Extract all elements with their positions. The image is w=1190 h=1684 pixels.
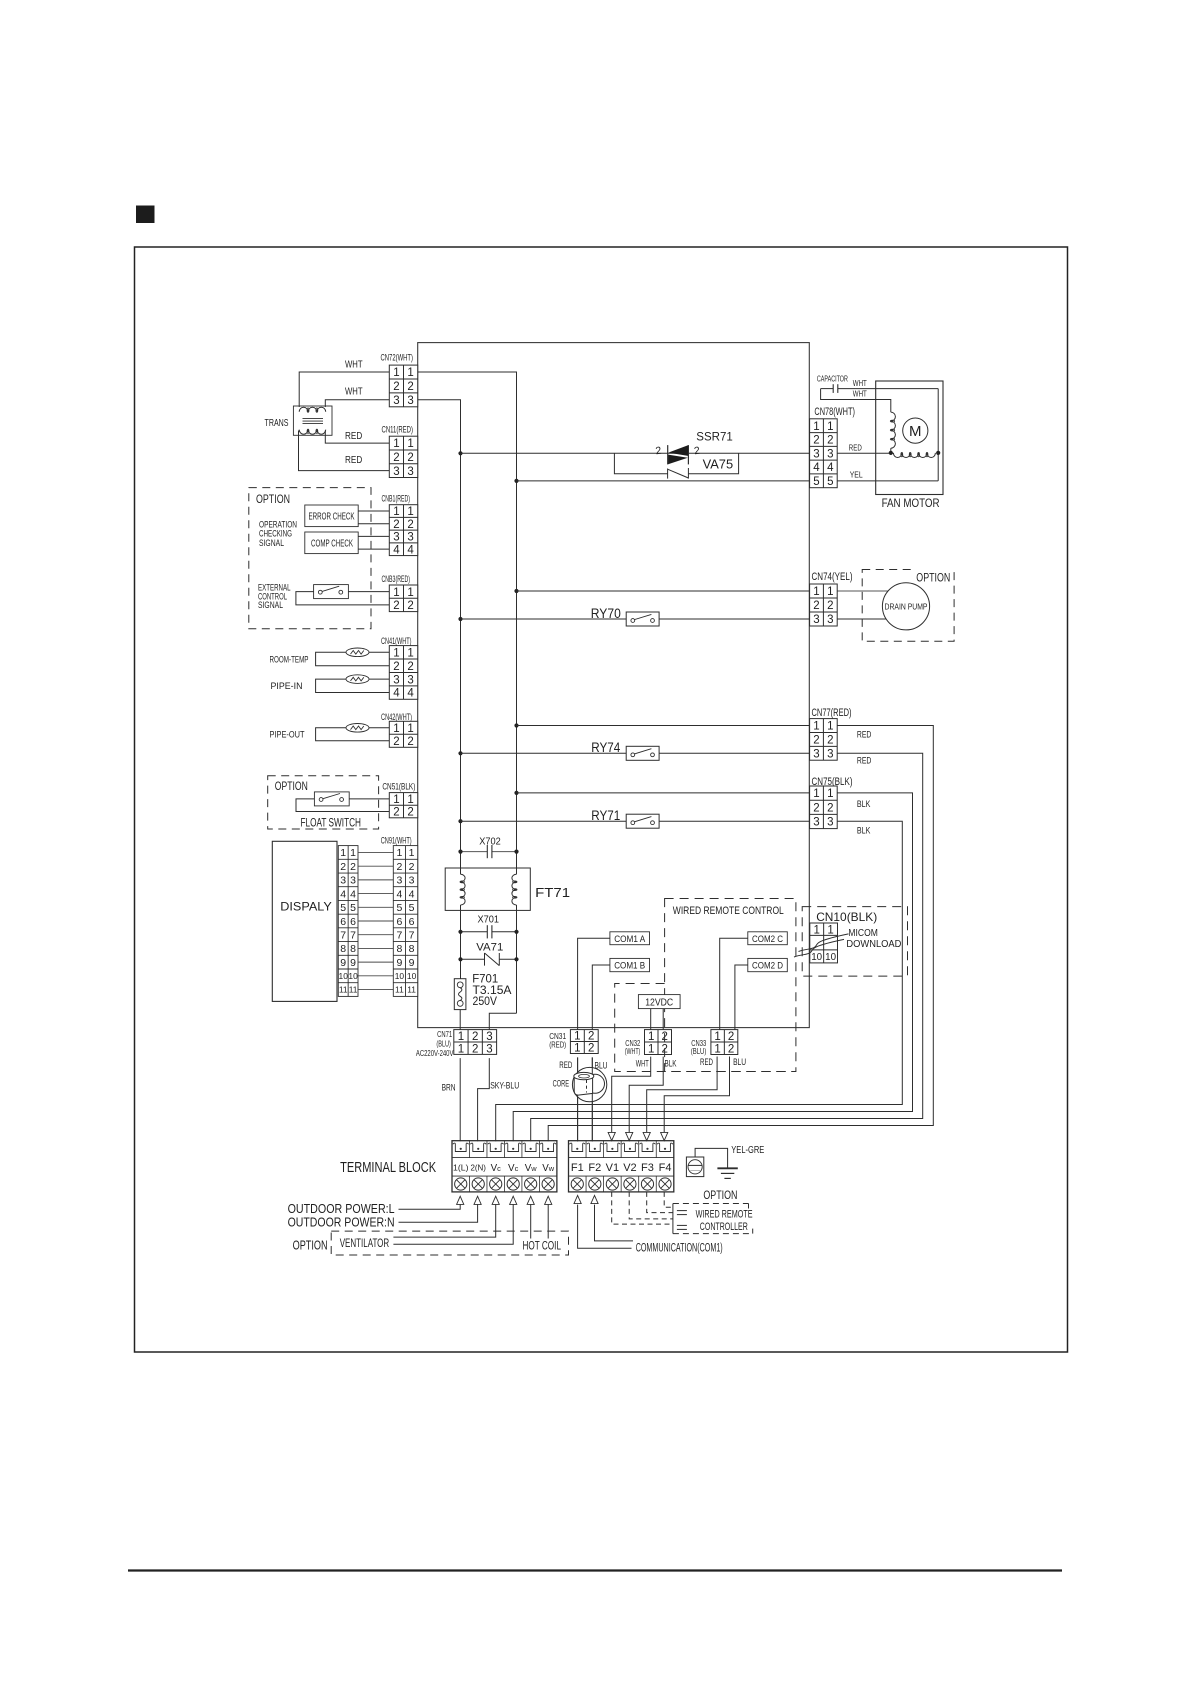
svg-text:3: 3 (813, 817, 819, 829)
svg-text:7: 7 (396, 929, 402, 941)
wire: vertical bus from CN72 pin3 (418, 400, 461, 874)
svg-text:3: 3 (827, 448, 833, 460)
wire: bus1 to RY70 to CN74 pin3 (461, 618, 627, 620)
svg-text:FT71: FT71 (535, 885, 570, 900)
varistor VA75 parallel branch (614, 453, 667, 473)
svg-text:6: 6 (340, 916, 346, 928)
dashed option box: drain pump (862, 570, 954, 642)
svg-text:CN72(WHT): CN72(WHT) (381, 353, 414, 363)
fan motor aux winding (horizontal) (893, 453, 935, 458)
switch: external control (314, 585, 349, 599)
label WIRED REMOTE CONTROL (668, 901, 792, 917)
svg-text:2: 2 (813, 735, 819, 747)
svg-text:4: 4 (393, 544, 400, 556)
svg-text:SIGNAL: SIGNAL (258, 600, 283, 611)
arrow under F2 (591, 1195, 598, 1203)
wire: CN32 pin2 to terminal V2 (629, 1057, 663, 1133)
svg-text:5: 5 (396, 902, 402, 914)
node X702 right (514, 850, 518, 854)
svg-text:VA75: VA75 (703, 457, 734, 472)
svg-text:1: 1 (574, 1043, 580, 1055)
earth ground symbol (717, 1167, 737, 1169)
arrow into F3 (643, 1132, 650, 1140)
svg-text:3: 3 (393, 466, 399, 478)
wire: bus2 to CN77 pin1 (517, 725, 810, 727)
svg-text:4: 4 (827, 462, 834, 474)
svg-text:1: 1 (393, 587, 399, 599)
wire: 12VDC to CN32 pin1 (650, 1009, 652, 1030)
svg-text:11: 11 (339, 985, 348, 995)
svg-text:3: 3 (407, 466, 413, 478)
svg-text:YEL: YEL (850, 469, 863, 479)
svg-text:1: 1 (407, 723, 413, 735)
svg-text:WHT: WHT (636, 1058, 649, 1068)
drain pump circle (882, 583, 929, 630)
svg-text:1: 1 (409, 847, 415, 859)
svg-text:2: 2 (827, 435, 833, 447)
svg-text:1: 1 (813, 788, 819, 800)
svg-text:11: 11 (395, 985, 404, 995)
svg-text:(BLU): (BLU) (436, 1039, 451, 1049)
relay RY74 (626, 746, 659, 760)
dashed option box: ventilator / hot coil (331, 1231, 568, 1255)
svg-text:1: 1 (714, 1043, 720, 1055)
lead: ventilator to Vc3 (393, 1205, 495, 1238)
svg-text:OPTION: OPTION (293, 1238, 328, 1252)
wire: CN75 pin3 to terminal Vc3 (496, 821, 903, 1141)
svg-text:2: 2 (407, 452, 413, 464)
wire: bus1 to RY74 to CN77 pin3 (461, 752, 627, 754)
svg-text:9: 9 (350, 957, 356, 969)
svg-text:F701: F701 (472, 973, 498, 985)
wire: bus2 to CN75 pin1 (517, 792, 810, 794)
node: bus1/RY74 junction (458, 751, 462, 755)
dashed box MICOM DOWNLOAD (802, 907, 907, 977)
svg-text:BRN: BRN (442, 1082, 456, 1093)
svg-text:2: 2 (393, 807, 399, 819)
wire+thermistor: ROOM-TEMP to CN41 pins 1,2 (316, 652, 390, 665)
svg-text:OPTION: OPTION (916, 570, 950, 584)
wire break squiggle through CN10 (799, 934, 849, 952)
svg-text:10: 10 (825, 952, 836, 963)
wire: CN75 pin1 to terminal Vc4 (513, 793, 912, 1141)
svg-text:2: 2 (813, 802, 819, 814)
svg-text:COM2 D: COM2 D (752, 961, 783, 971)
box ERROR CHECK (305, 505, 358, 527)
svg-text:1: 1 (827, 924, 833, 936)
svg-text:11: 11 (407, 985, 416, 995)
svg-text:OPTION: OPTION (256, 492, 290, 506)
wire: bus1 to RY71 to CN75 pin3 (461, 820, 627, 822)
svg-text:2: 2 (407, 736, 413, 748)
lead: F2 to communication (595, 1205, 634, 1241)
svg-text:5: 5 (813, 476, 819, 488)
wire: 12VDC to CN32 pin2 (662, 1009, 664, 1030)
svg-text:RED: RED (857, 730, 872, 740)
svg-text:CN10(BLK): CN10(BLK) (816, 910, 877, 924)
terminal 1(L) (453, 1143, 469, 1151)
svg-text:CN77(RED): CN77(RED) (812, 707, 852, 719)
wire: CN78 pin5 YEL to motor (837, 480, 938, 482)
dashed box 12VDC section (615, 984, 796, 1072)
svg-text:3: 3 (396, 875, 402, 887)
connector CN10(BLK) (810, 923, 838, 963)
triac SSR71 (667, 445, 669, 464)
svg-text:4: 4 (813, 462, 820, 474)
wire: CN77 pin3 to terminal Vw5 (531, 753, 923, 1141)
svg-text:3: 3 (486, 1031, 492, 1043)
svg-text:Vc: Vc (508, 1163, 519, 1174)
FT71 left winding (461, 874, 466, 905)
node: bus1/RY71 junction (458, 819, 462, 823)
svg-text:1: 1 (393, 647, 399, 659)
svg-text:3: 3 (393, 674, 399, 686)
svg-text:CN91(WHT): CN91(WHT) (381, 836, 412, 846)
wire: CN33 pin2 to terminal F4 (664, 1057, 729, 1133)
node: bus2/CN78 pin5 wire junction (514, 479, 518, 483)
terminal Vw (523, 1143, 539, 1151)
svg-text:Vw: Vw (525, 1163, 538, 1174)
svg-text:2: 2 (407, 661, 413, 673)
svg-text:2: 2 (409, 861, 415, 873)
wire: CN11 pin3 to transformer secondary left (299, 431, 390, 471)
node: bus2/CN74 junction (514, 589, 518, 593)
box COM1 B (610, 958, 650, 971)
svg-text:F3: F3 (641, 1162, 654, 1174)
svg-text:3: 3 (813, 448, 819, 460)
node: bus2/CN77 junction (514, 723, 518, 727)
svg-text:RED: RED (345, 455, 362, 466)
svg-text:4: 4 (340, 888, 346, 900)
svg-text:BLK: BLK (857, 799, 871, 809)
dashed lead: F4 to wired remote controller (664, 1192, 673, 1207)
terminal F2 (587, 1143, 603, 1151)
svg-text:FAN MOTOR: FAN MOTOR (882, 498, 940, 510)
svg-text:OPTION: OPTION (275, 779, 308, 793)
wire RED: CN31 pin1 to terminal F1 (577, 1057, 579, 1141)
svg-text:VA71: VA71 (476, 941, 503, 953)
svg-text:6: 6 (409, 916, 415, 928)
footer rule (128, 1569, 1062, 1571)
svg-text:PIPE-OUT: PIPE-OUT (270, 730, 305, 741)
lead: hot coil to Vw5 (530, 1205, 532, 1239)
node motor left (889, 451, 893, 455)
svg-text:9: 9 (396, 957, 402, 969)
node X701 right (514, 930, 518, 934)
svg-text:8: 8 (340, 943, 346, 955)
svg-text:2: 2 (393, 600, 399, 612)
svg-text:1: 1 (813, 721, 819, 733)
svg-text:YEL-GRE: YEL-GRE (731, 1144, 764, 1156)
svg-text:1: 1 (458, 1043, 464, 1055)
svg-text:ERROR CHECK: ERROR CHECK (309, 511, 355, 522)
DISPALY box (272, 841, 337, 1001)
svg-text:1: 1 (714, 1031, 720, 1043)
svg-text:3: 3 (350, 875, 356, 887)
svg-text:RED: RED (849, 443, 862, 453)
svg-text:1: 1 (827, 586, 833, 598)
svg-text:V2: V2 (623, 1162, 636, 1174)
node motor right (936, 451, 940, 455)
node VA71 right (514, 957, 518, 961)
box COM2 D (748, 958, 788, 971)
svg-text:1: 1 (813, 421, 819, 433)
svg-text:RED: RED (857, 755, 872, 765)
svg-text:RED: RED (559, 1060, 572, 1070)
svg-text:5: 5 (409, 902, 415, 914)
svg-text:WIRED REMOTE CONTROL: WIRED REMOTE CONTROL (673, 905, 784, 917)
svg-text:COM1 A: COM1 A (614, 934, 646, 944)
terminal Vc (488, 1143, 504, 1151)
svg-text:3: 3 (827, 817, 833, 829)
svg-text:CN71: CN71 (437, 1029, 452, 1039)
lead: hot coil to Vw6 (547, 1205, 549, 1239)
wire: capacitor lower WHT (821, 389, 891, 413)
svg-text:2: 2 (407, 600, 413, 612)
svg-text:WIRED REMOTE: WIRED REMOTE (696, 1208, 753, 1220)
svg-text:2: 2 (813, 600, 819, 612)
svg-text:CONTROLLER: CONTROLLER (700, 1221, 748, 1233)
wire+thermistor: PIPE-IN to CN41 pins 3,4 (316, 679, 390, 692)
svg-text:9: 9 (340, 957, 346, 969)
svg-text:VENTILATOR: VENTILATOR (340, 1238, 390, 1250)
svg-text:1: 1 (393, 506, 399, 518)
arrows under left strip (457, 1196, 464, 1204)
svg-text:7: 7 (350, 929, 356, 941)
switch: float switch (314, 792, 349, 806)
svg-text:CNB3(RED): CNB3(RED) (382, 574, 411, 584)
terminal F3 (639, 1143, 655, 1151)
svg-text:1: 1 (393, 438, 399, 450)
svg-text:1: 1 (393, 367, 399, 379)
svg-text:10: 10 (348, 971, 358, 981)
box COM1 A (610, 932, 650, 945)
svg-text:6: 6 (396, 916, 402, 928)
wire: external switch to CNB3 pin1 (348, 591, 389, 593)
box 12VDC (638, 995, 680, 1009)
fan motor box (876, 381, 943, 495)
wire: error check to CNB1 pins 1,2 (358, 510, 389, 512)
wire: CN33 pin1 to terminal F3 (647, 1057, 717, 1133)
svg-text:10: 10 (811, 952, 822, 963)
box COMP CHECK (305, 532, 358, 554)
svg-text:SSR71: SSR71 (696, 431, 733, 443)
svg-text:Vc: Vc (491, 1163, 502, 1174)
svg-text:2: 2 (827, 600, 833, 612)
svg-text:3: 3 (407, 674, 413, 686)
svg-text:4: 4 (393, 688, 400, 700)
transformer TRANS (293, 406, 332, 435)
svg-text:3: 3 (393, 532, 399, 544)
svg-text:F2: F2 (588, 1162, 601, 1174)
svg-text:1: 1 (393, 723, 399, 735)
svg-text:RED: RED (700, 1057, 713, 1067)
svg-text:DISPALY: DISPALY (280, 902, 332, 914)
box COM2 C (748, 932, 788, 945)
svg-text:1: 1 (813, 586, 819, 598)
svg-text:OPTION: OPTION (703, 1190, 737, 1202)
svg-text:CORE: CORE (553, 1079, 570, 1089)
svg-text:2: 2 (393, 519, 399, 531)
svg-text:3: 3 (409, 875, 415, 887)
wire: bus2 to CN74 pin1 (517, 590, 810, 592)
svg-text:CN41(WHT): CN41(WHT) (381, 636, 412, 646)
wire: CN78 pin3 RED to motor (837, 452, 893, 454)
svg-text:ROOM-TEMP: ROOM-TEMP (270, 655, 309, 666)
ferrite core (572, 1067, 606, 1101)
svg-text:F1: F1 (571, 1162, 584, 1174)
svg-text:BLU: BLU (733, 1057, 746, 1067)
svg-text:CN11(RED): CN11(RED) (382, 424, 414, 434)
wire: bus2 jog to CN71 pin3 (489, 1013, 516, 1029)
wire: CN72 pin1 to transformer primary left (299, 372, 389, 407)
svg-text:M: M (909, 423, 922, 440)
svg-text:7: 7 (409, 929, 415, 941)
wire: CN74 pin3 to drain pump (837, 618, 900, 620)
svg-text:5: 5 (350, 902, 356, 914)
svg-text:CNB1(RED): CNB1(RED) (382, 493, 411, 503)
svg-text:F4: F4 (659, 1162, 672, 1174)
svg-text:2: 2 (472, 1043, 478, 1055)
fan motor main winding (vertical) (891, 412, 896, 448)
dashed lead: V1 to wired remote controller (612, 1192, 673, 1224)
wire: COM2 C to CN33 pin1 (720, 938, 748, 1029)
svg-text:1: 1 (407, 587, 413, 599)
wire: CN77 pin1 to terminal Vw6 (548, 726, 933, 1142)
svg-text:SKY-BLU: SKY-BLU (490, 1080, 519, 1091)
svg-text:12VDC: 12VDC (645, 997, 673, 1008)
svg-text:10: 10 (407, 971, 417, 981)
svg-text:OUTDOOR POWER:N: OUTDOOR POWER:N (288, 1215, 395, 1229)
arrow under F1 (574, 1195, 581, 1203)
svg-text:10: 10 (395, 971, 405, 981)
svg-text:CN42(WHT): CN42(WHT) (381, 712, 412, 722)
svg-text:COMP CHECK: COMP CHECK (311, 538, 353, 549)
svg-text:3: 3 (813, 614, 819, 626)
svg-text:1: 1 (407, 367, 413, 379)
svg-text:2: 2 (472, 1031, 478, 1043)
svg-text:WHT: WHT (853, 378, 867, 388)
svg-text:3: 3 (407, 532, 413, 544)
svg-text:RY74: RY74 (591, 740, 620, 755)
svg-text:1: 1 (813, 924, 819, 936)
dashed lead: V2 to wired remote controller (629, 1192, 673, 1219)
svg-text:5: 5 (340, 902, 346, 914)
svg-text:WHT: WHT (853, 389, 867, 399)
svg-text:(BLU): (BLU) (691, 1046, 707, 1056)
earth screw symbol (686, 1157, 703, 1177)
line filter FT71 box (445, 868, 530, 910)
svg-text:4: 4 (409, 888, 415, 900)
svg-text:V1: V1 (606, 1162, 619, 1174)
wire: COM1 A to CN31 pin1 (578, 938, 610, 1029)
svg-text:1: 1 (407, 647, 413, 659)
svg-text:PIPE-IN: PIPE-IN (271, 681, 303, 692)
svg-text:2: 2 (393, 381, 399, 393)
node: bus2/CN75 junction (514, 791, 518, 795)
svg-text:2(N): 2(N) (470, 1162, 486, 1172)
wire BLU: CN31 pin2 to terminal F2 (591, 1057, 593, 1141)
svg-text:4: 4 (350, 888, 356, 900)
dashed option box: operation checking signal (249, 488, 371, 629)
svg-text:CN74(YEL): CN74(YEL) (812, 571, 853, 583)
svg-text:1: 1 (827, 721, 833, 733)
arrow into V2 (626, 1132, 633, 1140)
dashed lead: F3 to wired remote controller (647, 1192, 673, 1213)
svg-text:X701: X701 (478, 915, 500, 926)
wire: float switch to CN51 pin1 (348, 798, 389, 800)
svg-text:RED: RED (345, 431, 362, 442)
wire YEL-GRE to earth (695, 1148, 728, 1168)
svg-text:CN51(BLK): CN51(BLK) (382, 781, 415, 791)
svg-text:2: 2 (340, 861, 346, 873)
svg-text:Vw: Vw (542, 1163, 555, 1174)
svg-text:WHT: WHT (345, 360, 363, 371)
svg-text:3: 3 (486, 1043, 492, 1055)
fuse F701 (454, 979, 466, 1010)
wire: comp check to CNB1 pins 3,4 (358, 535, 389, 537)
svg-text:3: 3 (407, 395, 413, 407)
svg-text:X702: X702 (479, 836, 501, 847)
terminal V2 (622, 1143, 638, 1151)
svg-text:CN78(WHT): CN78(WHT) (814, 406, 855, 418)
svg-text:8: 8 (396, 943, 402, 955)
wire: COM2 D to CN33 pin2 (735, 965, 748, 1030)
svg-text:HOT COIL: HOT COIL (523, 1241, 562, 1253)
wire: SSR71 main wire to CN78 pin3 (461, 452, 810, 454)
svg-text:6: 6 (350, 916, 356, 928)
wire: float switch loop to CN51 pin2 (296, 799, 389, 812)
svg-text:3: 3 (340, 875, 346, 887)
svg-text:9: 9 (409, 957, 415, 969)
svg-text:7: 7 (340, 929, 346, 941)
wire: COM1 B to CN31 pin2 (592, 965, 610, 1030)
svg-text:OUTDOOR POWER:L: OUTDOOR POWER:L (288, 1202, 395, 1216)
terminal V1 (604, 1143, 620, 1151)
svg-text:2: 2 (827, 802, 833, 814)
svg-text:SIGNAL: SIGNAL (259, 538, 284, 549)
wire+thermistor: PIPE-OUT to CN42 pins 1,2 (316, 728, 390, 741)
svg-text:2: 2 (813, 435, 819, 447)
wire: external switch loop to CNB3 pin2 (296, 592, 389, 605)
svg-text:2: 2 (393, 661, 399, 673)
svg-text:FLOAT SWITCH: FLOAT SWITCH (301, 817, 362, 829)
svg-text:1: 1 (396, 847, 402, 859)
svg-text:4: 4 (407, 688, 414, 700)
svg-text:1: 1 (574, 1031, 580, 1043)
wire: RED/BLU through core (re-draw over core) (577, 1057, 579, 1141)
svg-text:BLK: BLK (665, 1058, 678, 1068)
svg-text:2: 2 (728, 1031, 734, 1043)
display-side connector (11 pins) (338, 846, 358, 997)
terminal Vw (540, 1143, 556, 1151)
svg-text:2: 2 (396, 861, 402, 873)
svg-text:1: 1 (827, 788, 833, 800)
svg-text:COMMUNICATION(COM1): COMMUNICATION(COM1) (636, 1243, 723, 1255)
terminal block right strip (569, 1141, 674, 1192)
svg-text:2: 2 (728, 1043, 734, 1055)
svg-text:3: 3 (813, 748, 819, 760)
svg-text:COM2 C: COM2 C (752, 934, 783, 944)
node: bus1/SSR wire junction (458, 451, 462, 455)
svg-text:2: 2 (393, 736, 399, 748)
node X701 left (458, 930, 462, 934)
motor M circle (903, 418, 928, 443)
svg-text:4: 4 (396, 888, 402, 900)
dashed box WIRED REMOTE CONTROL (665, 899, 796, 1072)
svg-text:10: 10 (339, 971, 349, 981)
svg-text:1: 1 (407, 506, 413, 518)
